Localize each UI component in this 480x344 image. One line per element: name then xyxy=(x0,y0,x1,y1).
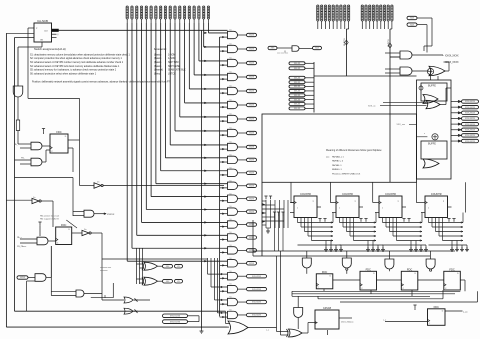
svg-text:XXX-XX: XXX-XX xyxy=(294,86,301,88)
svg-text:PA: protect for circuit: PA: protect for circuit xyxy=(40,215,60,218)
svg-text:XXXX: XXXX xyxy=(249,237,255,239)
svg-text:XXX-XXXX: XXX-XXXX xyxy=(465,101,476,103)
svg-text:XXX-XX: XXX-XX xyxy=(294,63,301,65)
svg-text:XXX-XXXX: XXX-XXXX xyxy=(252,289,262,291)
svg-text:XXX-XX: XXX-XX xyxy=(294,91,301,93)
svg-text:74L: 74L xyxy=(229,58,232,60)
svg-text:x_x: x_x xyxy=(383,320,386,322)
svg-text:PA: support in 4UI B: PA: support in 4UI B xyxy=(40,217,59,220)
svg-text:xx xxxxx xxx: xx xxxxx xxx xyxy=(100,267,111,269)
svg-text:XXX-XXXX: XXX-XXXX xyxy=(252,302,262,304)
svg-text:XXX-XXXX: XXX-XXXX xyxy=(465,124,476,126)
svg-text:Position: deliberately network: Position: deliberately network assembly … xyxy=(32,81,171,84)
svg-text:J: J xyxy=(382,208,383,210)
svg-text:CA-NCB: CA-NCB xyxy=(37,19,48,23)
svg-text:C4SC8: C4SC8 xyxy=(323,307,332,310)
svg-text:74L: 74L xyxy=(229,297,232,299)
svg-text:74L: 74L xyxy=(229,206,232,208)
svg-text:xx xxxxx: xx xxxxx xyxy=(100,270,108,272)
svg-text:XXX-XX: XXX-XX xyxy=(294,68,301,70)
svg-text:SUP TRM: SUP TRM xyxy=(168,62,178,64)
svg-text:XXXXX: XXXXX xyxy=(107,214,115,216)
svg-text:XXXX-XXXX: XXXX-XXXX xyxy=(170,316,181,318)
svg-text:PA_x: PA_x xyxy=(17,236,22,239)
svg-text:74L: 74L xyxy=(229,284,232,286)
svg-text:S4: advanced select cct KEYPD: S4: advanced select cct KEYPD lock down … xyxy=(30,65,120,68)
svg-text:XXXX: XXXX xyxy=(249,185,255,187)
svg-text:74L: 74L xyxy=(229,114,232,116)
svg-text:XXX_xxx: XXX_xxx xyxy=(397,124,406,126)
svg-text:PA/PA0 = 0: PA/PA0 = 0 xyxy=(332,160,344,163)
svg-text:XXX-XX: XXX-XX xyxy=(294,108,301,110)
svg-text:(Entry): (Entry) xyxy=(154,73,161,76)
svg-text:XXXX: XXXX xyxy=(249,105,255,107)
svg-text:PB_PAxxx: PB_PAxxx xyxy=(17,245,26,248)
svg-text:XXX-XX: XXX-XX xyxy=(294,95,301,97)
svg-text:74L: 74L xyxy=(229,100,232,102)
svg-text:XXXX_XXXX: XXXX_XXXX xyxy=(445,56,459,58)
svg-text:XXXX: XXXX xyxy=(249,91,255,93)
svg-text:XXXX: XXXX xyxy=(249,147,255,149)
svg-text:XXXX: XXXX xyxy=(249,63,255,65)
svg-text:FDC: FDC xyxy=(434,305,439,309)
svg-text:S3: advanced select cct KEYPD: S3: advanced select cct KEYPD number mem… xyxy=(30,61,124,64)
svg-text:XXXX: XXXX xyxy=(249,198,255,200)
svg-text:XXX-XXXX: XXX-XXXX xyxy=(465,107,476,109)
svg-text:XXX-XXXX: XXX-XXXX xyxy=(465,113,476,115)
svg-text:XXX-XX: XXX-XX xyxy=(294,82,301,84)
svg-text:FDC: FDC xyxy=(56,130,61,134)
svg-text:FDC: FDC xyxy=(61,223,66,227)
svg-text:FDC: FDC xyxy=(366,267,371,271)
svg-text:74L: 74L xyxy=(229,232,232,234)
svg-text:74L: 74L xyxy=(229,86,232,88)
svg-text:XXXX: XXXX xyxy=(20,277,26,279)
svg-text:74L: 74L xyxy=(229,310,232,312)
svg-text:XXX-XXXX: XXX-XXXX xyxy=(252,276,262,278)
svg-text:1-NOM: 1-NOM xyxy=(168,58,176,60)
svg-text:XXX-XXXX: XXX-XXXX xyxy=(252,315,262,317)
svg-text:q: q xyxy=(398,201,399,203)
svg-text:PLD(14..) WRITE UNBLOCK: PLD(14..) WRITE UNBLOCK xyxy=(332,173,361,175)
svg-text:q: q xyxy=(443,201,444,203)
svg-text:74L: 74L xyxy=(229,258,232,260)
svg-text:PA/TA(0..) 1: PA/TA(0..) 1 xyxy=(332,156,344,159)
svg-text:XXXX: XXXX xyxy=(249,35,255,37)
svg-text:CLK: CLK xyxy=(44,31,49,33)
svg-text:J: J xyxy=(428,208,429,210)
svg-text:q: q xyxy=(355,201,356,203)
svg-text:XXXX: XXXX xyxy=(249,160,255,162)
svg-text:XXX-XXXX: XXX-XXXX xyxy=(465,118,476,120)
svg-text:XXXX: XXXX xyxy=(249,133,255,135)
svg-text:XXXX: XXXX xyxy=(249,49,255,51)
svg-text:74L: 74L xyxy=(229,219,232,221)
svg-text:RMB00..1: RMB00..1 xyxy=(332,169,343,171)
svg-text:BUFFE: BUFFE xyxy=(428,85,436,88)
svg-text:x: x xyxy=(424,133,425,135)
svg-text:XXX_xx: XXX_xx xyxy=(368,105,376,107)
svg-text:XXXX: XXXX xyxy=(249,119,255,121)
svg-text:xxx xxxx xxx: xxx xxxx xxx xyxy=(277,53,288,55)
svg-text:XXXX: XXXX xyxy=(249,211,255,213)
svg-text:74L: 74L xyxy=(229,155,232,157)
svg-text:XXXX: XXXX xyxy=(249,77,255,79)
svg-text:J: J xyxy=(297,208,298,210)
svg-text:XXXX: XXXX xyxy=(249,224,255,226)
svg-text:XXX-XX: XXX-XX xyxy=(294,99,301,101)
svg-text:COUNTR: COUNTR xyxy=(300,193,311,196)
svg-text:XXX-XXXX: XXX-XXXX xyxy=(465,135,476,137)
svg-text:XXXX-XXXX: XXXX-XXXX xyxy=(170,321,181,323)
svg-text:FDC: FDC xyxy=(322,270,327,274)
svg-text:74L: 74L xyxy=(229,245,232,247)
svg-text:Dx: Dx xyxy=(84,229,86,231)
svg-text:SLAB LNTE BLK: SLAB LNTE BLK xyxy=(168,69,186,72)
svg-text:Switch assignments(HJ-H): Switch assignments(HJ-H) xyxy=(34,47,66,51)
svg-text:COUNTR: COUNTR xyxy=(342,193,353,196)
svg-text:S6: advanced protection select: S6: advanced protection select when adva… xyxy=(30,73,97,76)
svg-text:XXXX: XXXX xyxy=(249,263,255,265)
svg-text:XXX-XX: XXX-XX xyxy=(294,104,301,106)
svg-text:Dx: Dx xyxy=(97,182,99,184)
svg-text:74L: 74L xyxy=(229,180,232,182)
svg-text:74L: 74L xyxy=(229,271,232,273)
svg-text:XXX-XXXX: XXX-XXXX xyxy=(465,141,476,143)
svg-text:74L: 74L xyxy=(229,142,232,144)
svg-text:XXX-XXXX: XXX-XXXX xyxy=(465,129,476,131)
svg-text:FDC: FDC xyxy=(407,267,412,271)
svg-text:q: q xyxy=(313,201,314,203)
svg-text:74L: 74L xyxy=(229,44,232,46)
svg-text:(Branch): (Branch) xyxy=(154,69,163,72)
svg-text:S2: computer protection line w: S2: computer protection line when signal… xyxy=(30,57,122,60)
svg-text:XXXX: XXXX xyxy=(249,173,255,175)
svg-text:J: J xyxy=(339,208,340,210)
svg-text:S1: deactivates memory column: S1: deactivates memory column demodulato… xyxy=(30,53,130,56)
svg-text:BUFFE: BUFFE xyxy=(428,143,436,146)
svg-text:1-NOM: 1-NOM xyxy=(168,54,176,56)
svg-text:74L: 74L xyxy=(229,193,232,195)
svg-text:PA/TA0..1: PA/TA0..1 xyxy=(332,164,342,167)
svg-text:74L: 74L xyxy=(229,30,232,32)
svg-text:S5: advanced memory for it adv: S5: advanced memory for it advances, to … xyxy=(30,69,117,72)
svg-text:COUNTR: COUNTR xyxy=(431,193,442,196)
svg-text:Dx: Dx xyxy=(33,197,35,199)
svg-text:COUNTR: COUNTR xyxy=(385,193,396,196)
svg-text:74L: 74L xyxy=(229,128,232,130)
svg-text:XXX-XX: XXX-XX xyxy=(294,78,301,80)
svg-text:74L: 74L xyxy=(229,72,232,74)
svg-text:Meaning of different bits/acce: Meaning of different bits/access follow … xyxy=(326,149,382,152)
svg-text:FDC: FDC xyxy=(449,267,454,271)
svg-text:x_x: x_x xyxy=(266,330,269,332)
svg-text:(G01+G0)xxx: (G01+G0)xxx xyxy=(341,322,354,324)
svg-text:74L: 74L xyxy=(229,167,232,169)
